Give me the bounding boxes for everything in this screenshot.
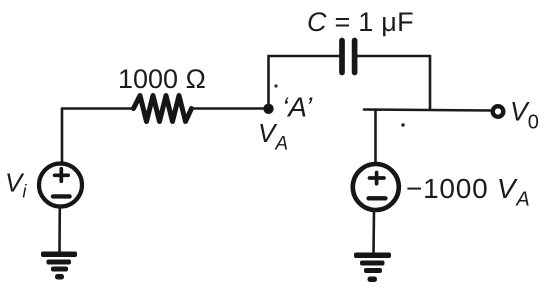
resistor R1 1000 ohm zigzag <box>134 96 192 122</box>
stray ink speck below output wire <box>401 123 405 127</box>
minus sign inside dependent source <box>369 196 386 200</box>
plus sign inside Vi source <box>55 169 69 182</box>
output terminal V0 open circle <box>493 106 504 117</box>
capacitor C1 right plate <box>352 41 358 73</box>
wire: output node horizontal run to terminal <box>364 110 492 111</box>
dependent source U1 circle <box>353 164 399 210</box>
wire: dependent source bottom to right ground <box>372 210 375 254</box>
svg-text:V0: V0 <box>510 97 539 134</box>
svg-text:‘A’: ‘A’ <box>282 92 313 123</box>
node A junction dot <box>263 104 273 114</box>
wire: capacitor right plate to right corner down to output node <box>358 56 431 110</box>
svg-text:−1000 VA: −1000 VA <box>406 173 530 211</box>
svg-text:Vi: Vi <box>5 168 27 202</box>
wire: resistor right lead to node A <box>192 107 269 110</box>
svg-text:1000 Ω: 1000 Ω <box>118 64 206 94</box>
stray ink speck near node A <box>274 84 277 87</box>
plus sign inside dependent source <box>370 173 385 184</box>
minus sign inside Vi source <box>53 194 70 198</box>
wire: node A up to capacitor left plate <box>269 56 340 106</box>
independent source Vi circle <box>39 164 82 207</box>
wire: output node down to dependent source top <box>374 110 377 164</box>
svg-text:VA: VA <box>258 118 288 155</box>
capacitor C1 left plate <box>339 41 345 73</box>
wire: corner to resistor left lead <box>62 107 134 110</box>
svg-text:C = 1 μF: C = 1 μF <box>307 7 414 37</box>
ground (left) <box>41 252 77 280</box>
wire: Vi source bottom to left ground <box>58 207 61 252</box>
ground (right) <box>354 253 391 283</box>
wire: Vi source top to left corner <box>61 109 64 164</box>
